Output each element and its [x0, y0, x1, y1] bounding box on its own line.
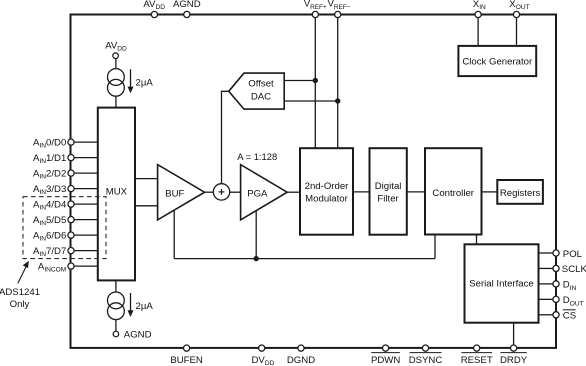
svg-text:CS: CS	[563, 311, 576, 322]
wire serial interface to DIN	[539, 283, 553, 285]
wire feedback horizontal run	[174, 258, 435, 260]
summing node	[213, 184, 229, 200]
wire pin AIN5 to MUX	[71, 219, 98, 221]
pin AIN5/D5	[68, 217, 74, 223]
wire current source to MUX top	[115, 96, 117, 108]
AVDD bias pin	[113, 53, 119, 59]
junction on VREF+ line	[313, 78, 318, 83]
pin POL	[553, 250, 559, 256]
wire pin AIN0 to MUX	[71, 141, 98, 143]
wire PGA to modulator	[287, 191, 300, 193]
svg-text:AIN0/D0: AIN0/D0	[33, 137, 66, 149]
chip outer border	[71, 15, 557, 348]
pin AIN6/D6	[68, 232, 74, 238]
svg-text:PDWN: PDWN	[371, 355, 400, 366]
op-amp PGA	[241, 165, 288, 220]
wire serial interface to SCLK	[539, 267, 553, 269]
svg-text:Offset: Offset	[248, 79, 274, 90]
svg-text:AGND: AGND	[124, 329, 152, 340]
svg-text:DAC: DAC	[251, 91, 271, 102]
digital filter block	[370, 148, 407, 235]
wire AVDD bias to current source	[115, 58, 117, 68]
wire controller to registers	[482, 191, 498, 193]
svg-text:Modulator: Modulator	[305, 194, 348, 205]
svg-text:AIN5/D5: AIN5/D5	[33, 215, 66, 227]
wire summing node to PGA	[230, 191, 241, 193]
wire modulator to digital filter	[353, 191, 370, 193]
2nd-order modulator block	[300, 148, 353, 235]
svg-text:2nd-Order: 2nd-Order	[305, 181, 350, 192]
pin VREF-	[335, 11, 341, 17]
wire XIN to clock generator	[477, 18, 479, 46]
dashed ADS1241-only group box	[23, 197, 106, 259]
wire BUF underside vertical	[173, 210, 175, 259]
svg-text:AIN7/D7: AIN7/D7	[33, 246, 66, 258]
svg-text:RESET: RESET	[461, 355, 493, 366]
svg-text:ADS1241: ADS1241	[0, 287, 40, 298]
wire pin AIN2 to MUX	[71, 172, 98, 174]
svg-text:2µA: 2µA	[136, 77, 154, 88]
svg-text:PGA: PGA	[247, 189, 268, 200]
pin BUFEN	[184, 345, 190, 351]
svg-text:DRDY: DRDY	[500, 355, 528, 366]
svg-text:AIN2/D2: AIN2/D2	[33, 168, 66, 180]
pin AINCOM	[68, 263, 74, 269]
pin RESET (active low)	[474, 345, 480, 351]
wire VREF- vertical	[337, 18, 339, 149]
svg-text:A = 1:128: A = 1:128	[237, 151, 277, 162]
wire serial interface to POL	[539, 252, 553, 254]
current source I1 2uA	[108, 69, 125, 86]
pin CS (active low)	[553, 312, 559, 318]
offset DAC	[229, 73, 285, 109]
pin DVDD	[259, 345, 265, 351]
wire pin AIN7 to MUX	[71, 250, 98, 252]
svg-text:AIN3/D3: AIN3/D3	[33, 184, 66, 196]
wire feedback up to controller	[434, 235, 436, 259]
pin DRDY (active low)	[510, 345, 516, 351]
svg-text:AIN4/D4: AIN4/D4	[33, 199, 67, 211]
svg-text:Registers: Registers	[500, 188, 541, 199]
wire pin AIN1 to MUX	[71, 157, 98, 159]
pin AIN4/D4	[68, 201, 74, 207]
wire pin AIN3 to MUX	[71, 188, 98, 190]
wire PGA underside vertical	[255, 211, 257, 259]
wire BUF output to summing node	[205, 191, 214, 193]
pin DGND	[298, 345, 304, 351]
svg-text:DGND: DGND	[287, 355, 315, 366]
wire MUX to BUF upper input	[135, 178, 158, 180]
pin AGND (top)	[184, 11, 190, 17]
svg-text:Controller: Controller	[432, 188, 474, 199]
wire VREF+ vertical	[314, 18, 316, 149]
svg-text:POL: POL	[563, 249, 583, 260]
svg-text:SCLK: SCLK	[562, 264, 586, 275]
wire controller to serial interface	[476, 235, 478, 245]
pin AIN1/D1	[68, 155, 74, 161]
arrow 2uA down (upper)	[130, 69, 132, 88]
wire summing node up to offset DAC	[222, 91, 230, 183]
svg-text:Serial Interface: Serial Interface	[469, 279, 534, 290]
svg-text:Filter: Filter	[377, 194, 399, 205]
arrow 2uA down (lower)	[130, 293, 132, 312]
svg-text:AIN1/D1: AIN1/D1	[33, 153, 66, 165]
svg-text:AGND: AGND	[173, 0, 201, 10]
wire offset DAC upper output	[284, 80, 315, 82]
svg-text:Digital: Digital	[375, 181, 402, 192]
pin AVDD (top)	[151, 11, 157, 17]
pin AIN7/D7	[68, 248, 74, 254]
pin VREF+	[312, 11, 318, 17]
clock generator block	[458, 46, 536, 76]
pin DOUT	[553, 296, 559, 302]
wire pin AIN6 to MUX	[71, 234, 98, 236]
pin XIN	[475, 11, 481, 17]
wire pin AINCOM to MUX	[71, 265, 98, 267]
svg-text:MUX: MUX	[106, 187, 128, 198]
pin XOUT	[513, 11, 519, 17]
svg-text:Clock Generator: Clock Generator	[462, 57, 533, 68]
pin DIN	[553, 281, 559, 287]
wire MUX to BUF lower input	[135, 205, 158, 207]
pin AIN2/D2	[68, 170, 74, 176]
pin AIN0/D0	[68, 139, 74, 145]
wire lower current source to AGND	[115, 319, 117, 331]
MUX block	[98, 108, 135, 281]
wire digital filter to controller	[407, 191, 425, 193]
arrow from note to dashed box	[18, 266, 26, 283]
wire offset DAC lower output	[284, 100, 338, 102]
svg-text:Only: Only	[10, 299, 30, 310]
wire serial interface to DOUT	[539, 298, 553, 300]
controller block	[425, 148, 482, 234]
pin PDWN (active low)	[383, 345, 389, 351]
svg-text:2µA: 2µA	[136, 301, 154, 312]
svg-text:DSYNC: DSYNC	[409, 355, 443, 366]
wire XOUT to clock generator	[516, 18, 518, 46]
registers block	[497, 180, 543, 204]
junction on feedback run	[254, 256, 259, 261]
pin DSYNC (active low)	[422, 345, 428, 351]
svg-text:AIN6/D6: AIN6/D6	[33, 230, 66, 242]
AGND bias pin	[113, 331, 119, 337]
serial interface block	[465, 244, 539, 322]
wire serial interface to DRDY	[513, 323, 515, 345]
svg-text:BUFEN: BUFEN	[170, 355, 203, 366]
op-amp BUF	[158, 165, 205, 220]
wire serial interface to CS	[539, 314, 553, 316]
wire pin AIN4 to MUX	[71, 203, 98, 205]
pin AIN3/D3	[68, 186, 74, 192]
junction on VREF- line	[335, 98, 340, 103]
svg-text:BUF: BUF	[165, 189, 184, 200]
current source I2 2uA	[108, 292, 125, 309]
pin SCLK	[553, 265, 559, 271]
wire MUX bottom to lower current source	[115, 280, 117, 292]
